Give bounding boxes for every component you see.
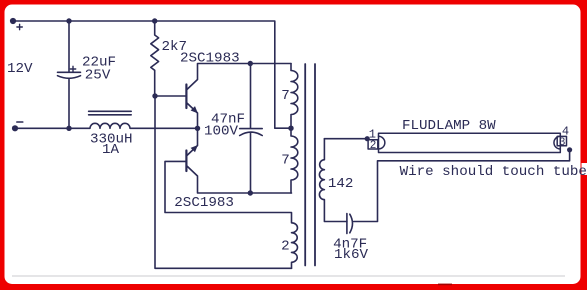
svg-text:3: 3 xyxy=(559,137,566,149)
svg-text:7: 7 xyxy=(281,153,290,169)
svg-text:12V: 12V xyxy=(7,61,33,77)
svg-text:1A: 1A xyxy=(102,142,120,158)
svg-text:100V: 100V xyxy=(204,123,239,139)
svg-text:2: 2 xyxy=(281,239,290,255)
svg-text:2SC1983: 2SC1983 xyxy=(180,51,240,67)
svg-text:FLUDLAMP 8W: FLUDLAMP 8W xyxy=(402,118,496,134)
svg-text:Wire should touch tube: Wire should touch tube xyxy=(400,164,587,180)
svg-text:2: 2 xyxy=(370,140,377,152)
svg-text:2SC1983: 2SC1983 xyxy=(174,195,234,211)
svg-text:25V: 25V xyxy=(85,68,111,84)
svg-text:1k6V: 1k6V xyxy=(334,247,369,263)
svg-text:142: 142 xyxy=(328,176,354,192)
svg-text:7: 7 xyxy=(281,88,290,104)
